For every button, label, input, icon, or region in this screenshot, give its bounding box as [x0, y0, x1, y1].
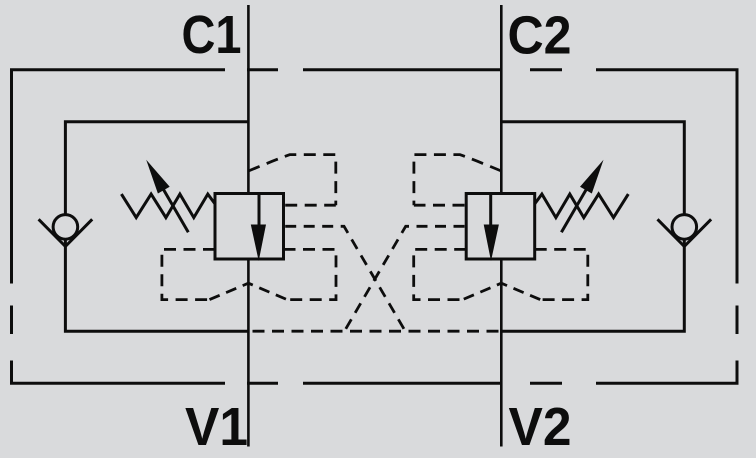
pilot loop upper (dashed) [248, 155, 335, 206]
right half: mirrored copy (valve 2, check valve 2, crossover) [346, 5, 712, 447]
outer boundary: left edge lower dashes and bottom-left corner [12, 306, 502, 384]
adjustment arrow head [146, 160, 170, 194]
pilot loop upper, port stub run [285, 204, 336, 207]
check valve seat [39, 219, 93, 246]
valve envelope square [215, 194, 284, 260]
svg-text:V1: V1 [185, 398, 248, 457]
check valve ball [53, 215, 78, 240]
spring zigzag [121, 194, 215, 218]
outer boundary dashed frame: top edge [12, 70, 738, 384]
lower-left pilot loop (dashed) [162, 249, 215, 299]
pilot chevron below valve (dashed) [210, 283, 288, 299]
svg-text:C1: C1 [182, 6, 242, 65]
svg-text:C2: C2 [508, 7, 572, 66]
adjustment arrow shaft [152, 170, 188, 233]
inner solid rectangle: top run [65, 122, 248, 331]
lower-right pilot loop (dashed) [284, 249, 337, 299]
main line C1/V1 [247, 5, 250, 447]
internal flow arrow [251, 225, 266, 262]
crossover pilot (dashed) [285, 226, 404, 329]
svg-text:V2: V2 [509, 398, 572, 457]
outer boundary: right edge lower dashes and bottom-right corner [530, 306, 737, 384]
bottom middle dashed pilot line between V1 and V2 [253, 330, 502, 333]
internal flow line [258, 194, 261, 227]
